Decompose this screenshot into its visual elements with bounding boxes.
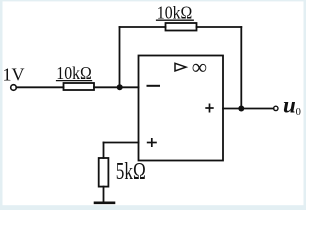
wire: input from terminal to R1 — [16, 86, 63, 88]
node: inverting input junction — [117, 84, 123, 90]
ground bar — [95, 202, 114, 205]
svg-text:10kΩ: 10kΩ — [56, 63, 92, 83]
wire: R1 to op-amp inverting input — [94, 86, 139, 88]
wire: non-inverting input to 5k — [104, 142, 139, 144]
underline of input 10kΩ label — [56, 80, 92, 82]
wire: feedback right vertical — [240, 27, 242, 109]
wire: feedback left vertical — [119, 27, 121, 87]
output terminal circle — [274, 106, 278, 110]
resistor R2 10k feedback box — [166, 23, 197, 31]
wire: 5k bottom lead — [103, 187, 105, 203]
resistor R3 5k box — [99, 158, 109, 187]
resistor R1 10k input box — [64, 83, 95, 90]
svg-text:10kΩ: 10kΩ — [157, 2, 193, 22]
op-amp minus input symbol — [147, 85, 161, 87]
op-amp plus (output) symbol — [205, 104, 213, 113]
svg-text:u: u — [283, 93, 296, 118]
wire: op-amp output — [223, 108, 274, 110]
wire: top feedback left segment — [120, 26, 166, 28]
svg-text:5kΩ: 5kΩ — [116, 159, 146, 185]
svg-text:∞: ∞ — [192, 55, 207, 79]
op-amp plus (non-inverting) symbol — [147, 138, 157, 147]
wire: top feedback right segment — [197, 26, 242, 28]
wire: 5k top lead — [103, 143, 105, 159]
input terminal circle — [11, 85, 17, 91]
svg-text:0: 0 — [296, 107, 301, 118]
op-amp gain symbol: triangle — [175, 63, 186, 71]
op-amp U1 body — [139, 56, 224, 161]
node: output junction — [238, 106, 244, 112]
underline of feedback 10kΩ label — [156, 19, 194, 21]
svg-text:1V: 1V — [3, 65, 25, 85]
